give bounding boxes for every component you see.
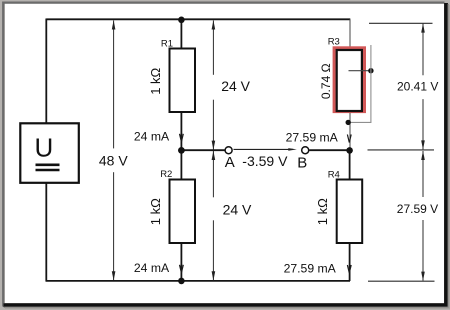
current arrow R2 (180, 265, 184, 273)
dimension 48 V line (113, 21, 115, 281)
svg-text:1 kΩ: 1 kΩ (148, 198, 163, 225)
resistor R1 (170, 49, 196, 113)
terminal B circle (302, 147, 309, 154)
svg-text:U: U (35, 133, 54, 163)
svg-text:R1: R1 (161, 39, 173, 50)
terminal A circle (225, 147, 232, 154)
svg-text:27.59 mA: 27.59 mA (284, 261, 337, 275)
svg-text:24 V: 24 V (223, 202, 252, 218)
svg-text:1 kΩ: 1 kΩ (148, 67, 163, 94)
wire node A left (181, 149, 224, 151)
svg-text:20.41 V: 20.41 V (397, 80, 438, 94)
svg-text:R4: R4 (328, 170, 340, 181)
R3 wiper dot (368, 68, 373, 73)
wire R3 bottom stub (349, 112, 351, 151)
svg-text:R2: R2 (160, 169, 172, 180)
wire R3 top stub (349, 19, 351, 48)
wire left lower (45, 183, 47, 282)
svg-text:24 V: 24 V (221, 78, 250, 94)
svg-text:24 mA: 24 mA (134, 130, 170, 144)
R3 bottom junction dot (346, 120, 351, 125)
dimension 24 V (R1) line (212, 21, 214, 150)
svg-text:27.59 V: 27.59 V (397, 202, 438, 216)
DC symbol double bar (36, 164, 60, 167)
extension line bottom right (368, 280, 435, 282)
voltage arrow A to B (234, 148, 294, 150)
dimension 20.41 V line (422, 24, 424, 150)
svg-text:A: A (225, 154, 235, 171)
node junction top (R1/top wire) (178, 17, 185, 24)
wire R4 top stub (349, 150, 351, 179)
node junction bottom (178, 278, 185, 285)
wire node B right (309, 149, 349, 151)
wire R1 top stub (180, 19, 182, 48)
svg-text:1 kΩ: 1 kΩ (315, 198, 330, 225)
wire R2 top stub (180, 151, 182, 180)
svg-text:0.74 Ω: 0.74 Ω (319, 63, 333, 99)
svg-text:B: B (297, 154, 307, 171)
current arrow R3 (347, 135, 351, 143)
wire top (46, 18, 350, 20)
extension line top right (369, 22, 433, 24)
dimension 27.59 V line (422, 151, 424, 281)
wire bottom (46, 280, 351, 282)
svg-text:-3.59 V: -3.59 V (242, 153, 288, 169)
current arrow R1 (180, 134, 184, 142)
svg-text:24 mA: 24 mA (134, 261, 170, 275)
node junction mid right (346, 147, 353, 154)
extension line mid right (368, 149, 435, 151)
svg-text:27.59 mA: 27.59 mA (286, 130, 339, 144)
svg-text:R3: R3 (328, 37, 340, 48)
svg-text:48 V: 48 V (99, 152, 128, 168)
wire R4 bottom stub (349, 243, 351, 282)
R3 wiper tap line (349, 70, 371, 72)
resistor R3 (rheostat) (337, 50, 362, 111)
current arrow R4 (347, 265, 351, 273)
R3 track return line (348, 45, 371, 122)
R3 red selection highlight (334, 48, 364, 112)
dimension 24 V (R2) line (212, 151, 214, 280)
node junction mid left (178, 147, 185, 154)
wire left upper (45, 19, 47, 124)
wire R2 bottom stub (180, 243, 182, 282)
voltage source U box (20, 123, 79, 183)
wire R1 bottom stub (180, 112, 182, 151)
resistor R2 (170, 180, 196, 244)
resistor R4 (337, 180, 363, 244)
